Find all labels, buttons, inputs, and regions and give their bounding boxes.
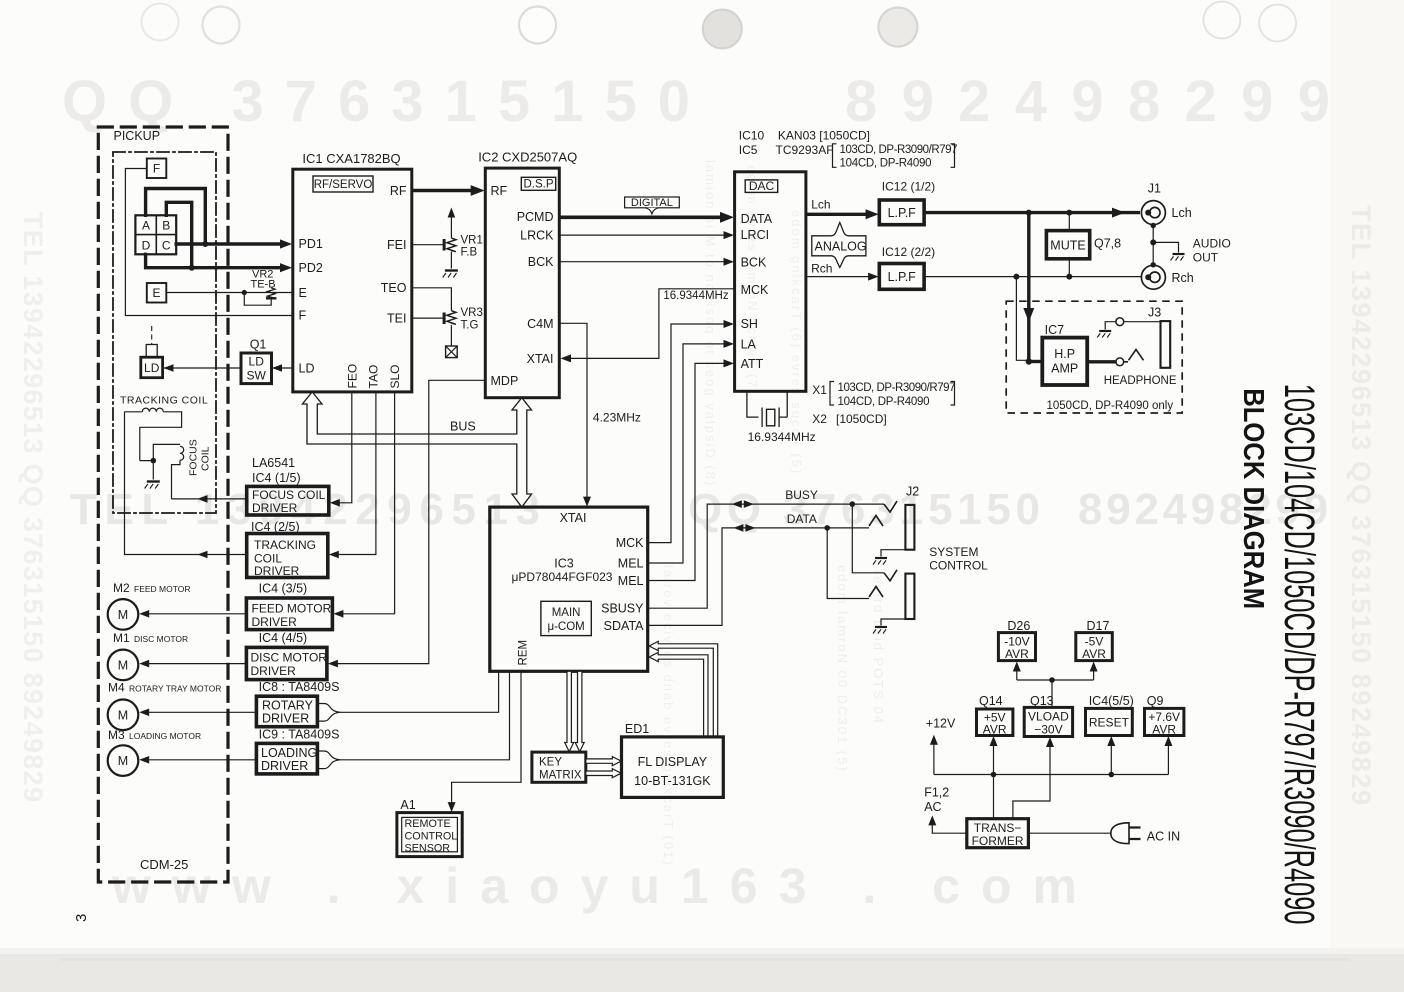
ground jack2 bbox=[873, 627, 887, 634]
ground tracking coil bbox=[145, 482, 160, 489]
svg-text:Q9: Q9 bbox=[1147, 694, 1164, 708]
wire VLOAD to AVRs bbox=[1017, 680, 1094, 707]
wire headphone takeoff Lch bbox=[1027, 213, 1030, 362]
svg-text:[1050CD]: [1050CD] bbox=[836, 412, 887, 426]
connector J3 bar bbox=[1161, 321, 1171, 368]
svg-text:103CD, DP-R3090/R797: 103CD, DP-R3090/R797 bbox=[840, 144, 958, 156]
svg-text:BCK: BCK bbox=[528, 255, 554, 269]
tracking coil bbox=[125, 408, 182, 461]
svg-text:PICKUP: PICKUP bbox=[114, 129, 161, 143]
punch hole 1 bbox=[142, 4, 179, 41]
svg-text:DRIVER: DRIVER bbox=[254, 564, 300, 578]
crystal X1/X2 bbox=[747, 391, 787, 427]
svg-text:RF: RF bbox=[491, 184, 508, 198]
svg-text:D.S.P: D.S.P bbox=[523, 179, 553, 191]
svg-text:AC IN: AC IN bbox=[1147, 830, 1180, 844]
svg-text:DRIVER: DRIVER bbox=[252, 615, 298, 629]
svg-text:edom lamroN 00 DC301 (5): edom lamroN 00 DC301 (5) bbox=[835, 565, 850, 773]
svg-text:AMP: AMP bbox=[1051, 362, 1078, 376]
wire Lch LPF to J1 bbox=[924, 211, 1140, 214]
pickup inner dash-dot box bbox=[113, 152, 216, 513]
svg-text:OUT: OUT bbox=[1193, 250, 1219, 264]
svg-text:MEL: MEL bbox=[618, 574, 644, 588]
svg-text:IC2 CXD2507AQ: IC2 CXD2507AQ bbox=[478, 150, 577, 165]
wire jack2 ground bbox=[881, 619, 905, 626]
svg-text:IC7: IC7 bbox=[1045, 323, 1065, 337]
wire SDATA DATA bbox=[648, 528, 869, 626]
DAC IC10/IC5 box bbox=[735, 172, 806, 391]
svg-text:L.P.F: L.P.F bbox=[888, 270, 917, 284]
motor M1 bbox=[108, 650, 139, 681]
svg-text:DIGITAL: DIGITAL bbox=[631, 197, 673, 209]
punch hole 6 bbox=[1203, 2, 1240, 39]
svg-text:CDM-25: CDM-25 bbox=[140, 857, 188, 872]
svg-text:LD: LD bbox=[144, 361, 160, 375]
svg-text:X2: X2 bbox=[812, 412, 827, 426]
regulator +5V AVR box bbox=[977, 709, 1013, 736]
wire audio ground bbox=[1153, 242, 1178, 252]
svg-text:DATA: DATA bbox=[741, 212, 773, 226]
svg-text:DRIVER: DRIVER bbox=[262, 712, 309, 726]
svg-text:TAO: TAO bbox=[367, 365, 381, 389]
svg-text:SBUSY: SBUSY bbox=[601, 602, 644, 616]
connector J1 Rch jack bbox=[1145, 274, 1151, 280]
svg-text:BLOCK DIAGRAM: BLOCK DIAGRAM bbox=[1238, 388, 1271, 609]
wire VR2 wiper loop bbox=[244, 293, 271, 306]
reset box bbox=[1086, 708, 1133, 735]
hollow arrow key matrix to FL 2 bbox=[586, 769, 621, 778]
svg-text:lairov ecivres dnab evres gnik: lairov ecivres dnab evres gnikcarT (01) bbox=[661, 565, 676, 867]
wire jack1 ground bbox=[881, 550, 905, 557]
wire VR1 top arrow bbox=[450, 216, 452, 238]
svg-text:VLOAD: VLOAD bbox=[1028, 710, 1069, 724]
resistor VR3 bbox=[447, 311, 456, 325]
wire tracking driver to coil bbox=[125, 412, 247, 555]
resistor VR1 wiper bar bbox=[443, 239, 446, 251]
svg-text:103CD/104CD/1050CD/DP-R797/R30: 103CD/104CD/1050CD/DP-R797/R3090/R4090 bbox=[1275, 384, 1322, 925]
wire TEO bbox=[412, 288, 452, 311]
svg-text:FEED MOTOR: FEED MOTOR bbox=[134, 584, 191, 594]
ground J3 bbox=[1097, 331, 1111, 338]
contact circle J3 top bbox=[1116, 318, 1124, 326]
headphone dashed box 1050CD only bbox=[1006, 301, 1182, 413]
hollow arrow IC3 to key matrix 2 bbox=[575, 671, 584, 751]
junction dot PD1 bbox=[202, 241, 208, 247]
label RF/SERVO bbox=[313, 176, 373, 192]
wire HP out bbox=[1087, 360, 1116, 363]
svg-text:IC3: IC3 bbox=[554, 557, 574, 571]
transformer box bbox=[967, 819, 1029, 848]
svg-text:FEI: FEI bbox=[387, 238, 406, 252]
label flag ANALOG bbox=[812, 223, 866, 268]
svg-text:BCK: BCK bbox=[741, 255, 767, 269]
brace loading driver bbox=[317, 751, 341, 769]
svg-text:DRIVER: DRIVER bbox=[251, 664, 297, 678]
svg-text:A: A bbox=[142, 219, 150, 233]
svg-text:LA6541: LA6541 bbox=[252, 456, 295, 470]
svg-text:B: B bbox=[162, 219, 170, 233]
hollow arrow FL to IC3 lower bbox=[649, 652, 708, 737]
svg-text:DRIVER: DRIVER bbox=[252, 501, 298, 515]
svg-text:IC4 (3/5): IC4 (3/5) bbox=[259, 582, 308, 596]
svg-text:LD: LD bbox=[299, 362, 315, 376]
focus coil driver box bbox=[247, 486, 329, 515]
svg-text:F.B: F.B bbox=[461, 247, 478, 259]
wire supply rail bbox=[934, 774, 1169, 776]
svg-text:J2: J2 bbox=[906, 485, 919, 499]
svg-text:IC1 CXA1782BQ: IC1 CXA1782BQ bbox=[302, 151, 400, 166]
wire transformer to VLOAD bbox=[1013, 746, 1050, 819]
LD box bbox=[141, 357, 163, 378]
wire Rch LPF to J1 bbox=[924, 276, 1141, 278]
svg-text:IC5: IC5 bbox=[739, 143, 758, 157]
svg-text:Lch: Lch bbox=[1172, 206, 1192, 220]
wire to -10V AVR bbox=[1016, 671, 1018, 680]
photodiode quad A B D C bbox=[135, 215, 176, 254]
svg-text:MEL: MEL bbox=[618, 557, 644, 571]
svg-text:AVR: AVR bbox=[1082, 647, 1106, 661]
wire C4M 4.23MHz bbox=[559, 323, 587, 500]
wire BUSY to jack2 bbox=[852, 504, 884, 573]
svg-text:M3: M3 bbox=[108, 728, 125, 742]
wire IC1 LD to Q1 bbox=[273, 367, 293, 369]
svg-text:HEADPHONE: HEADPHONE bbox=[1104, 375, 1177, 387]
svg-text:AVR: AVR bbox=[1005, 647, 1029, 661]
wire E bbox=[166, 292, 292, 294]
svg-text:LOADING MOTOR: LOADING MOTOR bbox=[129, 731, 201, 741]
wire PD1 bbox=[176, 242, 282, 245]
connector J2 jack1 contacts bbox=[884, 501, 897, 512]
svg-text:MDP: MDP bbox=[491, 374, 519, 388]
svg-text:MCK: MCK bbox=[741, 283, 769, 297]
wire LRCK to LRCI bbox=[559, 234, 724, 236]
svg-text:3: 3 bbox=[73, 914, 90, 922]
svg-text:D17: D17 bbox=[1087, 619, 1110, 633]
svg-text:REMOTE: REMOTE bbox=[405, 818, 451, 830]
rotary driver box bbox=[256, 696, 317, 727]
svg-text:ATT: ATT bbox=[741, 357, 764, 371]
transistor Q1 LD SW box bbox=[241, 353, 272, 384]
svg-text:SH: SH bbox=[741, 317, 758, 331]
svg-text:BUS: BUS bbox=[450, 420, 476, 434]
label flag DIGITAL bbox=[625, 197, 680, 208]
svg-text:LA: LA bbox=[741, 337, 757, 351]
wire rotary to IC3 bbox=[341, 671, 499, 712]
svg-text:Rch: Rch bbox=[1172, 271, 1194, 285]
junction dot DATA bbox=[824, 525, 830, 531]
svg-text:IC4 (1/5): IC4 (1/5) bbox=[252, 471, 301, 485]
pickup outer dashed box bbox=[98, 127, 228, 882]
svg-text:C4M: C4M bbox=[527, 317, 553, 331]
svg-text:AUDIO: AUDIO bbox=[1193, 236, 1231, 250]
junction dot Rch mute bbox=[1066, 274, 1072, 280]
svg-text:FEO: FEO bbox=[345, 364, 359, 389]
svg-text:M2: M2 bbox=[113, 581, 130, 595]
wire FEI bbox=[412, 244, 443, 246]
junction dot PD2 bbox=[189, 265, 195, 271]
svg-text:A1: A1 bbox=[400, 798, 415, 812]
svg-text:FOCUS: FOCUS bbox=[188, 439, 200, 476]
wire MEL to ATT bbox=[648, 363, 724, 580]
resistor VR3 wiper bar bbox=[443, 313, 446, 325]
svg-text:FORMER: FORMER bbox=[972, 834, 1024, 848]
svg-text:D26: D26 bbox=[1007, 619, 1030, 633]
svg-text:C: C bbox=[162, 239, 171, 253]
op-amp IC1 RF/SERVO box bbox=[293, 169, 412, 392]
wire F bbox=[125, 169, 292, 316]
svg-text:M: M bbox=[118, 659, 128, 673]
svg-text:www . xiaoyu163 . com: www . xiaoyu163 . com bbox=[111, 858, 1077, 914]
svg-text:XTAI: XTAI bbox=[527, 352, 554, 366]
resistor VR1 bbox=[447, 238, 456, 252]
svg-text:−30V: −30V bbox=[1034, 723, 1062, 737]
svg-text:16.9344MHz: 16.9344MHz bbox=[663, 290, 728, 302]
svg-text:DISC MOTOR: DISC MOTOR bbox=[251, 651, 328, 665]
svg-text:MAIN: MAIN bbox=[552, 607, 581, 619]
svg-text:L.P.F: L.P.F bbox=[888, 206, 917, 220]
wire TEI bbox=[412, 317, 443, 319]
svg-text:SW: SW bbox=[247, 369, 267, 383]
wire transformer to AC plug bbox=[1028, 832, 1111, 834]
arrowhead PD1 into IC1 bbox=[280, 239, 292, 248]
label DAC bbox=[745, 180, 778, 193]
wire +12V arrow bbox=[933, 744, 935, 775]
svg-text:SENSOR: SENSOR bbox=[405, 843, 451, 855]
wire VR1 bottom bbox=[450, 252, 452, 269]
svg-text:LRCI: LRCI bbox=[741, 228, 769, 242]
svg-text:ANALOG: ANALOG bbox=[815, 239, 867, 253]
svg-text:+12V: +12V bbox=[926, 717, 956, 731]
regulator -10V AVR box bbox=[998, 633, 1035, 661]
wire rail to RESET bbox=[1110, 745, 1112, 775]
focus coil bbox=[153, 444, 183, 499]
svg-text:TRACKING: TRACKING bbox=[254, 538, 316, 552]
svg-text:M: M bbox=[118, 754, 128, 768]
wire SBUSY BUSY bbox=[648, 504, 884, 608]
svg-text:MUTE: MUTE bbox=[1050, 238, 1085, 252]
junction dot Rch headphone takeoff bbox=[1013, 274, 1019, 280]
ground audio out bbox=[1171, 254, 1185, 261]
connector J2 jack2 contacts bbox=[884, 570, 897, 581]
ground jack1 bbox=[873, 558, 887, 565]
wire BCK to BCK bbox=[559, 261, 724, 263]
svg-text:T.G: T.G bbox=[461, 320, 479, 332]
svg-text:AVR: AVR bbox=[983, 723, 1007, 737]
FL display box bbox=[622, 737, 724, 798]
junction dot coil bbox=[151, 458, 157, 464]
switch contact headphone bbox=[1124, 350, 1144, 362]
motor M3 bbox=[108, 745, 139, 776]
wire transformer to +5V bbox=[993, 745, 995, 819]
punch hole 5 bbox=[878, 8, 917, 47]
svg-text:16.9344MHz: 16.9344MHz bbox=[748, 430, 816, 444]
svg-text:ROTARY: ROTARY bbox=[262, 699, 314, 713]
svg-text:IC4 (4/5): IC4 (4/5) bbox=[259, 631, 308, 645]
svg-text:CONTROL: CONTROL bbox=[929, 559, 988, 573]
svg-text:M4: M4 bbox=[108, 681, 125, 695]
wire J3 top contact bbox=[1105, 322, 1160, 330]
photodiode E box bbox=[147, 283, 167, 303]
wire MCK to SH bbox=[648, 324, 724, 543]
punch hole 3 bbox=[519, 7, 556, 44]
motor M4 bbox=[108, 700, 139, 731]
microcomputer IC3 box bbox=[490, 507, 648, 671]
main u-com box bbox=[541, 601, 591, 635]
wire Q1 to LD bbox=[164, 367, 241, 369]
hollow arrow IC3 to key matrix 1 bbox=[565, 671, 574, 751]
svg-text:4.23MHz: 4.23MHz bbox=[593, 411, 641, 425]
svg-text:PD1: PD1 bbox=[299, 237, 323, 251]
svg-text:TC9293AF: TC9293AF bbox=[776, 143, 834, 157]
punch hole 2 bbox=[203, 7, 240, 44]
feed motor driver box bbox=[246, 598, 332, 630]
svg-text:H.P: H.P bbox=[1054, 347, 1075, 361]
wire MDP to disc driver bbox=[337, 380, 485, 663]
svg-text:BUSY: BUSY bbox=[785, 488, 818, 502]
svg-text:TRACKING COIL: TRACKING COIL bbox=[120, 395, 208, 407]
wire TAO to tracking driver bbox=[338, 392, 376, 555]
key matrix box bbox=[532, 752, 586, 782]
svg-text:AC: AC bbox=[924, 800, 941, 814]
svg-text:ED1: ED1 bbox=[625, 722, 649, 736]
svg-text:D: D bbox=[142, 239, 151, 253]
svg-text:DRIVER: DRIVER bbox=[261, 759, 308, 773]
svg-text:F1,2: F1,2 bbox=[924, 786, 949, 800]
AC plug bbox=[1111, 823, 1129, 844]
svg-text:KAN03 [1050CD]: KAN03 [1050CD] bbox=[778, 129, 870, 143]
svg-text:SYSTEM: SYSTEM bbox=[929, 545, 978, 559]
tracking coil driver box bbox=[247, 534, 328, 578]
hollow arrow key matrix to FL 1 bbox=[586, 757, 621, 766]
resistor VR2 bbox=[267, 288, 275, 299]
svg-text:M1: M1 bbox=[113, 631, 130, 645]
svg-text:MCK: MCK bbox=[616, 536, 644, 550]
wire feed driver to motor bbox=[149, 613, 246, 615]
bus hollow arrows IC1 IC2 IC3 bbox=[302, 392, 531, 507]
svg-text:892498299: 892498299 bbox=[845, 69, 1330, 134]
svg-text:E: E bbox=[299, 286, 307, 300]
svg-text:μ-COM: μ-COM bbox=[547, 621, 584, 633]
svg-text:IC9 : TA8409S: IC9 : TA8409S bbox=[259, 728, 340, 742]
svg-text:IC12 (2/2): IC12 (2/2) bbox=[882, 245, 935, 259]
junction dot Lch headphone takeoff bbox=[1026, 210, 1032, 216]
wire SLO to feed driver bbox=[342, 392, 395, 614]
svg-text:104CD, DP-R4090: 104CD, DP-R4090 bbox=[838, 396, 930, 408]
svg-text:FL DISPLAY: FL DISPLAY bbox=[638, 755, 708, 769]
svg-text:VR1: VR1 bbox=[461, 235, 483, 247]
svg-text:LOADING: LOADING bbox=[261, 746, 317, 760]
svg-text:Lch: Lch bbox=[811, 198, 830, 212]
svg-text:IC10: IC10 bbox=[739, 129, 765, 143]
svg-text:E: E bbox=[152, 286, 160, 300]
wire AC fuse bbox=[932, 824, 967, 833]
svg-text:REM: REM bbox=[518, 640, 530, 666]
wire loading to IC3 bbox=[341, 671, 510, 760]
svg-text:VR3: VR3 bbox=[461, 307, 483, 319]
svg-text:TEI: TEI bbox=[387, 312, 406, 326]
motor M2 bbox=[108, 599, 139, 630]
svg-text:J1: J1 bbox=[1148, 182, 1161, 196]
wire to -5V AVR bbox=[1093, 671, 1095, 680]
svg-text:μPD78044FGF023: μPD78044FGF023 bbox=[512, 570, 613, 584]
wire disc driver to motor bbox=[149, 663, 246, 665]
wire PCMD to DATA bbox=[559, 216, 722, 220]
svg-text:CONTROL: CONTROL bbox=[405, 831, 458, 843]
svg-text:103CD, DP-R3090/R797: 103CD, DP-R3090/R797 bbox=[838, 382, 956, 394]
photodiode F box bbox=[147, 159, 167, 179]
wire PD1 outer loop bbox=[146, 189, 206, 245]
wire REM to remote sensor bbox=[452, 671, 521, 807]
wire VR3 bottom bbox=[450, 325, 452, 345]
svg-text:PD2: PD2 bbox=[299, 261, 323, 275]
svg-text:M: M bbox=[118, 608, 128, 622]
wire rail to +7.6V bbox=[1167, 745, 1169, 775]
connector J2 jack2 bar bbox=[905, 574, 914, 619]
remote control sensor box bbox=[397, 813, 462, 857]
headphone amp box bbox=[1029, 360, 1043, 363]
label D.S.P bbox=[521, 177, 555, 190]
svg-text:PCMD: PCMD bbox=[517, 210, 554, 224]
laser diode lamp symbol bbox=[151, 326, 153, 344]
svg-text:ROTARY TRAY MOTOR: ROTARY TRAY MOTOR bbox=[129, 684, 221, 694]
ground VR1 bbox=[443, 271, 458, 278]
wire DATA to jack2 bbox=[827, 528, 869, 599]
svg-text:FOCUS COIL: FOCUS COIL bbox=[252, 488, 326, 502]
disc motor driver box bbox=[246, 647, 327, 679]
svg-text:Rch: Rch bbox=[811, 261, 832, 275]
svg-text:TRANS−: TRANS− bbox=[974, 821, 1022, 835]
svg-text:TE-B: TE-B bbox=[251, 279, 276, 291]
wire FEO to focus driver bbox=[339, 392, 352, 503]
svg-text:F: F bbox=[153, 162, 160, 176]
svg-text:1050CD, DP-R4090 only: 1050CD, DP-R4090 only bbox=[1047, 400, 1174, 412]
svg-text:revird bsid POTS 04: revird bsid POTS 04 bbox=[871, 570, 886, 725]
svg-text:DAC: DAC bbox=[749, 179, 775, 193]
svg-text:LRCK: LRCK bbox=[520, 229, 554, 243]
svg-text:M: M bbox=[118, 708, 128, 722]
svg-text:IC4(5/5): IC4(5/5) bbox=[1089, 694, 1134, 708]
wire loading driver to motor bbox=[149, 759, 256, 761]
wire headphone takeoff Rch bbox=[1016, 277, 1026, 361]
junction dot E bbox=[242, 290, 247, 295]
junction dot Lch mute takeoff bbox=[1066, 210, 1072, 216]
svg-text:SLO: SLO bbox=[388, 364, 402, 388]
regulator VLOAD -30V box bbox=[1024, 707, 1072, 736]
svg-text:X1: X1 bbox=[812, 383, 827, 397]
svg-text:Q1: Q1 bbox=[250, 338, 267, 352]
wire MCK to XTAI 16.9344MHz net bbox=[571, 289, 735, 359]
svg-text:104CD, DP-R4090: 104CD, DP-R4090 bbox=[840, 158, 932, 170]
svg-text:XTAI: XTAI bbox=[560, 511, 587, 525]
svg-text:AVR: AVR bbox=[1152, 722, 1176, 736]
svg-text:KEY: KEY bbox=[539, 757, 562, 769]
svg-text:TEO: TEO bbox=[381, 281, 407, 295]
connector J1 Lch jack bbox=[1145, 210, 1151, 216]
svg-text:IC12 (1/2): IC12 (1/2) bbox=[882, 180, 935, 194]
contact circle HP bbox=[1116, 358, 1124, 366]
test point box X bbox=[446, 346, 458, 358]
svg-text:RF: RF bbox=[390, 184, 407, 198]
regulator +7.6V AVR box bbox=[1145, 708, 1184, 735]
regulator -5V AVR box bbox=[1076, 633, 1113, 661]
mute Q7,8 box bbox=[1068, 213, 1070, 231]
svg-text:IC8 : TA8409S: IC8 : TA8409S bbox=[259, 680, 340, 694]
wire PD2 inner loop bbox=[166, 202, 191, 267]
svg-text:Q7,8: Q7,8 bbox=[1094, 236, 1121, 250]
arrowhead PD2 into IC1 bbox=[280, 263, 292, 272]
connector J2 jack1 bar bbox=[905, 505, 914, 550]
hollow arrow FL to IC3 upper bbox=[649, 641, 718, 737]
